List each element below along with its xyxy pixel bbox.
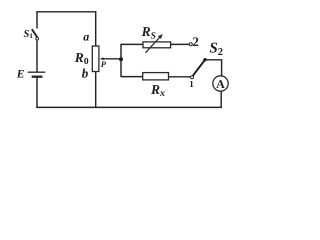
resistor Rs (variable)	[143, 34, 171, 53]
wire potentiometer bottom lead	[95, 72, 97, 108]
wire left rail middle	[36, 40, 38, 72]
svg-text:A: A	[216, 77, 225, 91]
svg-text:1: 1	[189, 79, 194, 89]
wire Rs right	[171, 43, 190, 45]
wire slider to junction	[102, 58, 121, 60]
switch S2 blade	[193, 60, 205, 75]
svg-text:2: 2	[192, 34, 199, 49]
switch S2 pivot dot	[203, 58, 206, 61]
wire potentiometer top lead	[95, 11, 97, 46]
wire top	[36, 11, 95, 13]
wire Rx left	[121, 76, 143, 78]
resistor Rx	[143, 73, 169, 80]
wire Rx right	[169, 76, 191, 78]
svg-text:E: E	[16, 68, 25, 80]
wire bottom	[36, 106, 221, 108]
battery E	[28, 72, 46, 77]
ammeter A	[213, 76, 228, 91]
switch S1	[32, 29, 39, 40]
wire left rail upper	[36, 11, 38, 28]
potentiometer slider P arrow	[100, 57, 104, 60]
wire Rs left	[121, 43, 143, 45]
svg-text:b: b	[82, 66, 89, 81]
junction node P-bus	[119, 57, 123, 61]
terminal 2	[189, 43, 192, 46]
wire right rail lower	[220, 91, 222, 108]
wire bus vertical	[120, 44, 122, 77]
wire left rail lower	[36, 78, 38, 108]
wire right rail upper	[221, 59, 223, 76]
wire S2 pivot to right corner	[205, 59, 221, 61]
terminal 1	[191, 76, 194, 79]
svg-text:a: a	[83, 30, 89, 44]
potentiometer R0	[92, 46, 99, 72]
svg-text:P: P	[101, 59, 107, 69]
